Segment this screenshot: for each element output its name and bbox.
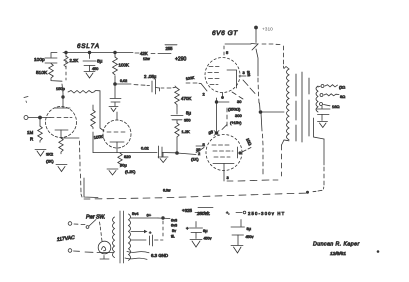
wire V1b cathode <box>110 142 124 153</box>
node heater junction <box>162 217 165 220</box>
tube V1b triode <box>103 120 131 148</box>
svg-text:0.02: 0.02 <box>120 79 127 83</box>
capacitor C9 inline <box>131 235 163 246</box>
terminal tap 2 <box>320 94 345 100</box>
tube V2 6V6 upper <box>205 58 240 93</box>
svg-text:+,: +, <box>226 210 229 215</box>
resistor R2 2.2K <box>64 54 79 80</box>
svg-text:820: 820 <box>124 154 131 159</box>
capacitor C10 8u 450 <box>186 222 212 241</box>
resistor R8 100K second plate <box>91 105 104 153</box>
svg-text:3K2: 3K2 <box>46 152 54 157</box>
resistor R3 100K plate <box>113 53 129 84</box>
svg-text:50μ: 50μ <box>120 163 127 168</box>
wire V1a plate <box>55 84 70 108</box>
wire centre tap feed <box>261 112 285 174</box>
wire B+ rail <box>51 53 155 54</box>
wire V2 bottom right dashes <box>232 92 243 99</box>
svg-text:6v3: 6v3 <box>171 219 177 223</box>
wire heater run dashed <box>84 189 306 200</box>
wire switch to lamp <box>100 222 103 241</box>
label cathode value <box>46 152 54 164</box>
label winding list <box>171 219 177 239</box>
svg-text:fil.: fil. <box>171 235 175 239</box>
svg-text:8μ: 8μ <box>97 59 103 65</box>
wire heater left riser <box>80 141 99 198</box>
label 6V6GT <box>212 30 238 37</box>
svg-text:8μ: 8μ <box>203 228 208 233</box>
svg-text:0.02: 0.02 <box>141 146 150 151</box>
wire to R4 <box>161 87 176 90</box>
transformer T1 secondary <box>316 86 318 112</box>
wire OT bottom riser <box>282 140 290 176</box>
capacitor C5 150p + grid stopper <box>56 86 104 131</box>
label 42K dropper <box>140 51 171 61</box>
svg-text:255: 255 <box>166 46 174 51</box>
terminal input jack <box>24 116 50 120</box>
svg-text:2.2K: 2.2K <box>70 58 79 63</box>
wire coupling run y84 <box>115 79 150 86</box>
capacitor C4 5u 350 <box>171 106 191 123</box>
svg-text:100K: 100K <box>119 63 129 68</box>
wire heater drop dashes <box>162 221 164 236</box>
svg-text:6v3: 6v3 <box>171 224 177 228</box>
wire signal run y152 <box>93 152 157 154</box>
ground tap G2 <box>158 153 168 163</box>
svg-text:12w: 12w <box>143 57 150 61</box>
svg-text:250-300v HT: 250-300v HT <box>248 211 285 216</box>
terminal AC neutral <box>68 249 93 253</box>
node rail junction 3 <box>114 51 117 54</box>
tube V1a triode <box>46 107 77 138</box>
svg-text:1.2K: 1.2K <box>182 129 191 134</box>
transformer T2 core <box>120 211 124 263</box>
svg-text:(1K): (1K) <box>191 157 199 162</box>
label V2 side <box>246 70 251 76</box>
node cathode junction <box>214 131 219 136</box>
node plate node <box>62 96 65 99</box>
capacitor C2 8u 450 electrolytic <box>83 53 103 71</box>
svg-text:16Ω: 16Ω <box>332 104 339 109</box>
svg-text:R: R <box>30 137 33 142</box>
wire heater tap <box>131 213 170 219</box>
wire bias dashes <box>222 108 227 130</box>
wire V3 grid entry <box>196 145 205 147</box>
svg-text:42K: 42K <box>140 51 148 56</box>
ground under C11 <box>231 246 243 254</box>
label 250vfr <box>196 208 229 217</box>
resistor R9 820 bypass <box>118 153 136 174</box>
wire 6.3 gnd wavy <box>125 252 168 260</box>
svg-text:5v4: 5v4 <box>132 211 139 216</box>
svg-text:300: 300 <box>235 113 242 118</box>
svg-text:250vfr.: 250vfr. <box>196 211 210 216</box>
transformer T1 primary <box>284 67 289 140</box>
svg-text:510K: 510K <box>36 70 48 76</box>
node B+ <box>255 26 274 33</box>
svg-text:+290: +290 <box>175 57 186 63</box>
wire V3 grid dashes <box>212 145 233 157</box>
svg-text:Duncan R. Kaper: Duncan R. Kaper <box>313 242 360 248</box>
wire to V3 grid <box>177 147 204 162</box>
node rail junction 1 <box>65 51 68 54</box>
svg-text:30: 30 <box>237 99 242 104</box>
wire cathode tap <box>61 137 79 139</box>
node rail junction 2 <box>88 51 91 54</box>
node splitter junction <box>176 152 179 155</box>
svg-text:6.3 GND: 6.3 GND <box>151 253 168 258</box>
svg-text:6V6 GT: 6V6 GT <box>212 30 238 37</box>
ground under C2 <box>84 72 95 79</box>
resistor R5 1.2K <box>175 120 190 153</box>
svg-text:6.3w: 6.3w <box>163 189 171 193</box>
node plate junction <box>114 83 117 86</box>
resistor R7 cathode <box>59 138 63 154</box>
wire V1a cathode <box>55 130 68 138</box>
svg-text:5μ: 5μ <box>186 111 191 116</box>
tube V3 6V6 lower <box>206 135 242 171</box>
ground under R7 <box>56 165 67 172</box>
node stray dot <box>377 251 379 253</box>
terminal tap 1 <box>318 85 345 90</box>
wire B+ drop <box>251 29 260 110</box>
ground under R6 <box>35 150 46 157</box>
svg-text:470K: 470K <box>181 96 191 101</box>
svg-text:(2Ω: (2Ω <box>339 86 345 90</box>
svg-text:6SL7A: 6SL7A <box>77 43 100 50</box>
svg-text:100p: 100p <box>34 57 45 63</box>
wire V2 cathode stub <box>221 93 223 99</box>
svg-text:12/8/61: 12/8/61 <box>330 251 346 257</box>
svg-text:+310: +310 <box>262 27 273 33</box>
label V3 pins <box>198 131 212 157</box>
label +290 <box>175 57 186 63</box>
switch S1 <box>86 220 96 229</box>
node OT centre tap <box>259 111 262 114</box>
wire V3 plate <box>238 137 253 158</box>
capacitor C3 .05u <box>144 74 160 94</box>
svg-text:8Ω: 8Ω <box>340 94 345 99</box>
label HT winding <box>236 211 285 216</box>
ground under R9 <box>107 169 118 175</box>
transformer T2 secondary <box>129 214 131 260</box>
wire V2 grid entry <box>186 76 207 97</box>
capacitor C6 small to ground <box>109 84 121 112</box>
lamp pilot <box>97 241 113 259</box>
terminal AC hot <box>68 222 85 226</box>
capacitor C7 0.02 coupling <box>141 146 162 159</box>
transformer T1 core <box>296 72 309 142</box>
svg-text:2 .05μ: 2 .05μ <box>144 74 157 79</box>
wire V2 pin5 stub <box>224 46 229 55</box>
mark stray pen <box>24 97 28 103</box>
svg-text:(2K): (2K) <box>46 159 54 164</box>
svg-text:(1.2K): (1.2K) <box>125 170 136 174</box>
wire V1b plate stub <box>116 112 118 120</box>
label PWR SW <box>86 215 105 221</box>
wire OT top riser dashes <box>283 46 285 68</box>
wire screen feed y44 <box>225 43 280 46</box>
wire after C7 <box>162 152 176 154</box>
svg-text:350: 350 <box>184 118 191 123</box>
svg-text:450v: 450v <box>204 237 212 241</box>
transformer T2 primary <box>113 217 115 258</box>
resistor R6 1M <box>27 118 42 142</box>
ground under C10 <box>190 240 202 248</box>
label +325 arrow <box>182 208 207 214</box>
capacitor C1 100p <box>34 53 57 63</box>
node input junction <box>39 116 42 119</box>
svg-text:+: + <box>186 226 189 231</box>
label bias values <box>228 99 242 125</box>
svg-text:+325: +325 <box>182 208 192 213</box>
svg-text:(250Ω): (250Ω) <box>228 107 241 112</box>
wire rectifier tap arrow <box>131 230 152 235</box>
wire secondary down <box>313 118 324 192</box>
node cathode tap <box>215 101 229 104</box>
svg-text:(+15v): (+15v) <box>230 120 242 125</box>
label 255 <box>165 45 177 51</box>
label 6SL7A <box>77 43 100 50</box>
svg-text:1M: 1M <box>27 130 33 135</box>
svg-text:8μ: 8μ <box>247 226 252 231</box>
svg-text:6+: 6+ <box>147 213 152 218</box>
terminal tap 3 <box>320 103 340 110</box>
resistor R4 470K <box>175 86 192 106</box>
wire V2 plate diagonal <box>243 80 255 94</box>
svg-text:5v: 5v <box>172 229 176 233</box>
capacitor C8 across secondary <box>317 106 331 128</box>
label 5v4 <box>132 211 139 216</box>
svg-text:150p: 150p <box>56 86 66 91</box>
wire V2 plate <box>227 70 246 88</box>
wire cathode bus <box>211 98 217 135</box>
capacitor C11 8u 450 <box>231 220 254 246</box>
wire V3 cathode <box>213 164 234 182</box>
svg-text:450: 450 <box>92 67 98 71</box>
resistor R1 510K <box>36 64 62 82</box>
wire plate return dashes <box>227 180 278 181</box>
wire V1a grid dashes <box>50 117 72 119</box>
wire V2 grid dashes <box>208 67 219 85</box>
node bottom left of riser <box>306 191 308 193</box>
svg-text:450v: 450v <box>246 235 254 239</box>
wire V1b grid dashes <box>107 131 125 133</box>
label 117VAC <box>57 235 76 243</box>
label signature <box>313 242 360 258</box>
